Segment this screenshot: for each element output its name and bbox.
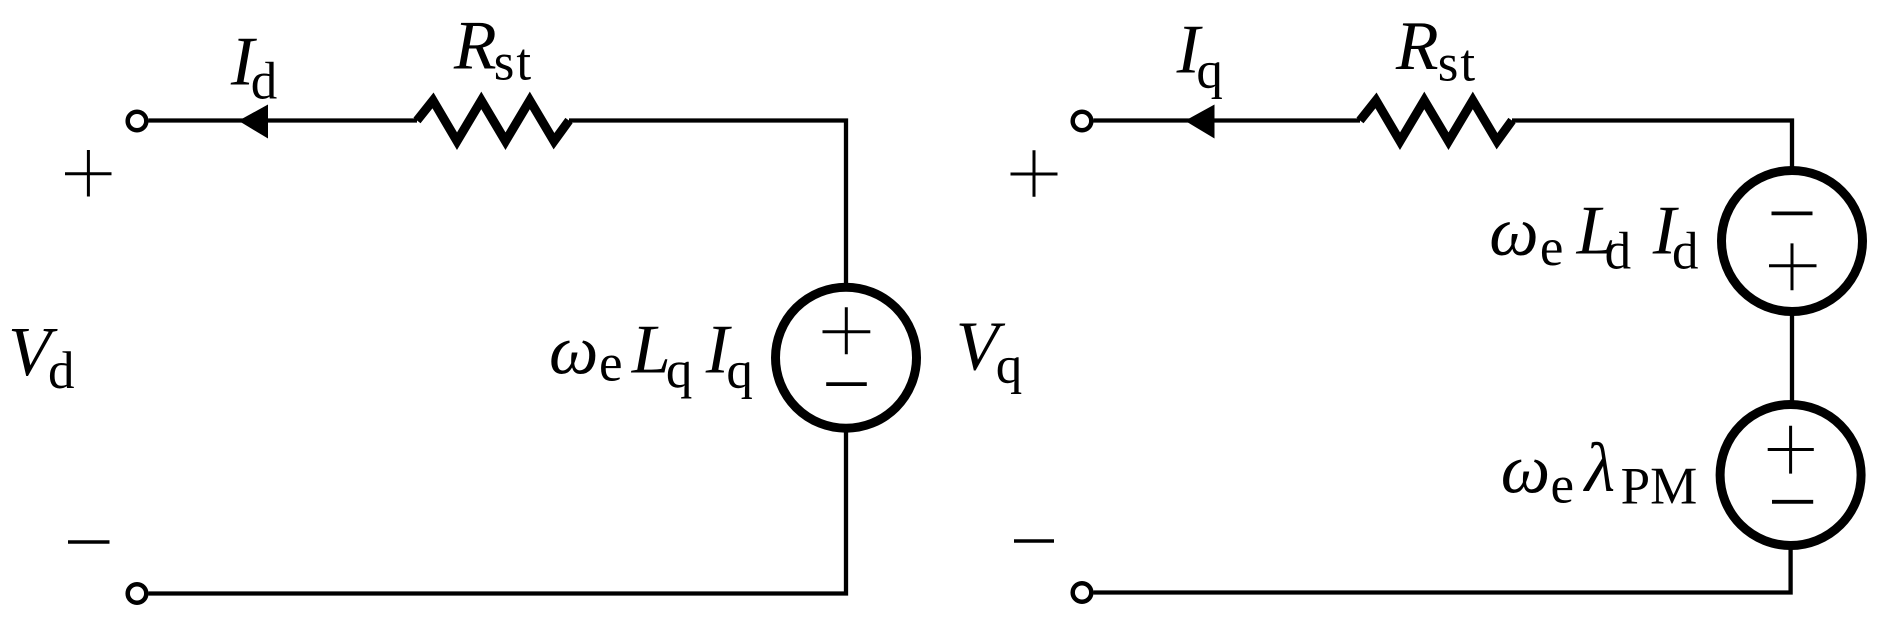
minus sign in source 1 <box>1772 211 1813 215</box>
terminal node Vd minus <box>128 584 147 603</box>
voltage source omega_e lambda_PM <box>1720 405 1861 546</box>
terminal node Vq minus <box>1073 583 1092 602</box>
minus terminal label Vd <box>68 540 110 544</box>
wire top-right and down to source <box>569 121 846 288</box>
minus sign in source <box>826 382 867 386</box>
wire bottom left circuit <box>149 428 847 594</box>
minus sign in source 2 <box>1772 500 1813 504</box>
current arrow Id <box>239 105 269 139</box>
minus terminal label Vq <box>1014 539 1054 543</box>
plus sign in source 1 <box>1769 243 1817 290</box>
terminal node Vq plus <box>1073 112 1092 131</box>
wire between sources <box>1790 312 1794 405</box>
svg-text:ωeLqIq: ωeLqIq <box>549 312 753 400</box>
current arrow Iq <box>1185 105 1215 139</box>
plus sign in source <box>823 307 871 354</box>
terminal node Vd plus <box>128 112 147 131</box>
resistor Rst right <box>1360 100 1512 141</box>
wire bottom right circuit <box>1094 546 1791 593</box>
voltage source omega_e Lq Iq <box>776 287 917 428</box>
wire top-left segment right circuit <box>1094 118 1361 122</box>
plus terminal label Vd <box>65 150 112 197</box>
plus sign in source 2 <box>1768 426 1814 474</box>
voltage source omega_e Ld Id <box>1722 171 1863 312</box>
resistor Rst left <box>417 100 569 141</box>
wire top-left segment <box>149 118 418 122</box>
plus terminal label Vq <box>1011 150 1058 197</box>
svg-text:ωeLdId: ωeLdId <box>1489 193 1698 281</box>
wire top-right and down to source 1 <box>1512 121 1792 171</box>
